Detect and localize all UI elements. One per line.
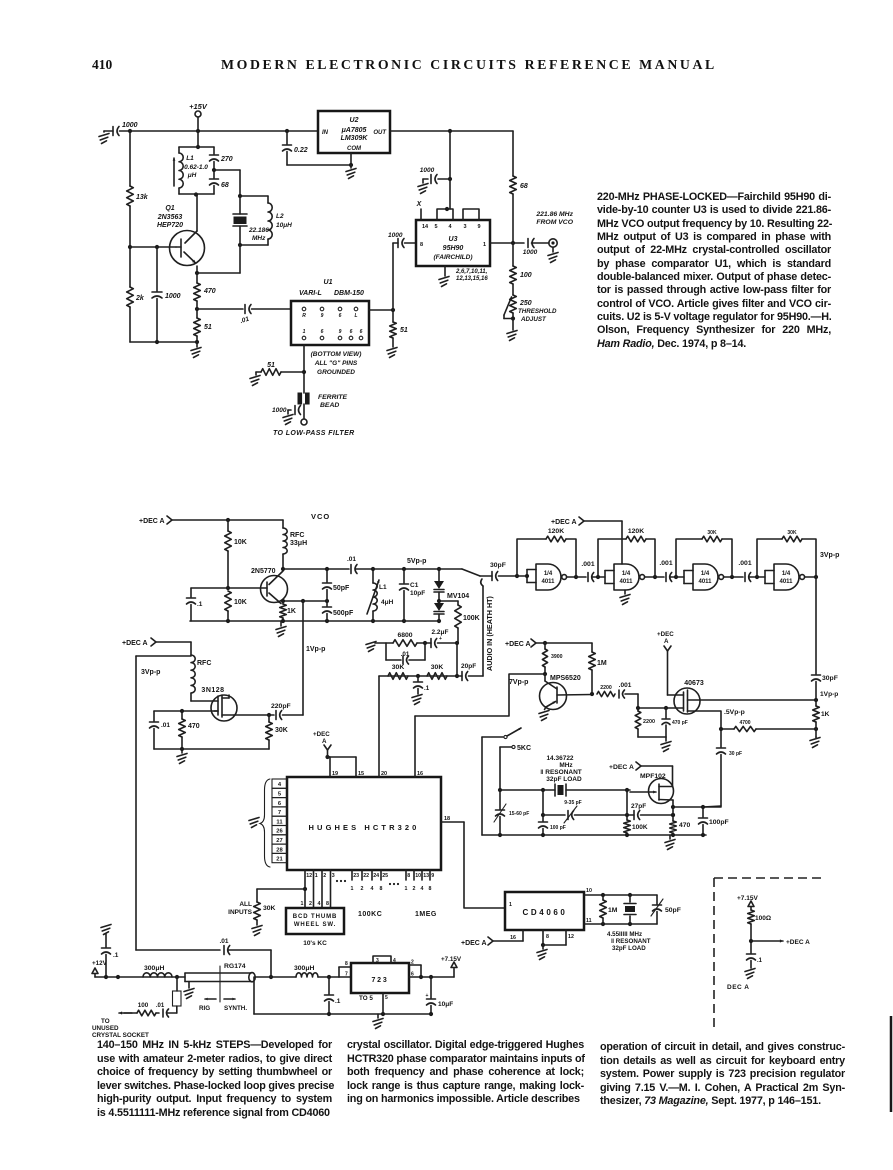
connector +DEC A (MPF102) [609, 762, 673, 787]
svg-text:470 pF: 470 pF [672, 720, 688, 726]
svg-text:1Vp-p: 1Vp-p [306, 646, 325, 653]
svg-text:4700: 4700 [739, 720, 750, 726]
svg-text:1K: 1K [287, 608, 296, 615]
crystal socket stub [167, 977, 181, 1013]
svg-text:8: 8 [546, 934, 549, 940]
mixer U1 VARI-L DBM-150 [291, 279, 369, 345]
capacitor 30pF (gate input) [439, 562, 517, 581]
wire U3 pin1 node [490, 241, 524, 245]
wire base [130, 245, 176, 249]
wire 723 out [419, 975, 454, 979]
capacitor 0.22 [283, 131, 308, 165]
svg-text:12: 12 [568, 934, 574, 940]
svg-text:221.86 MHz: 221.86 MHz [535, 211, 573, 218]
U3 top jumper 2 [463, 209, 479, 220]
divider rig/synth [199, 966, 247, 1012]
svg-text:100K: 100K [632, 824, 648, 831]
svg-text:4: 4 [421, 886, 424, 892]
pins 8/7 tie [339, 961, 351, 978]
svg-text:‖ RESONANT: ‖ RESONANT [611, 938, 651, 945]
wire 1Vp-p line [303, 601, 325, 715]
resistor 30K (audio 1) [388, 664, 408, 679]
capacitor .1 (det) [747, 954, 763, 968]
svg-text:4: 4 [371, 886, 374, 892]
svg-text:30K: 30K [707, 530, 717, 536]
svg-text:10pF: 10pF [410, 590, 425, 597]
svg-text:1000: 1000 [523, 249, 538, 256]
inductor RFC 33uH [283, 520, 307, 569]
wire gate2 out [645, 575, 665, 579]
wire MPS collector [557, 692, 594, 696]
trimmer 50pF (CD4060) [651, 895, 681, 924]
ground (pin I 51) [250, 372, 260, 386]
resistor 100 [510, 243, 532, 284]
svg-text:24: 24 [373, 873, 379, 879]
svg-text:1M: 1M [608, 907, 618, 914]
svg-text:9: 9 [477, 224, 480, 230]
inductor 300uH (1) [143, 965, 172, 977]
svg-text:10μF: 10μF [438, 1001, 453, 1008]
svg-text:10: 10 [415, 873, 421, 879]
ground (30K) [252, 920, 262, 936]
svg-text:+DEC A: +DEC A [122, 640, 148, 647]
svg-text:.01: .01 [401, 651, 410, 658]
svg-text:220pF: 220pF [271, 703, 291, 710]
brace (input pins) [260, 779, 270, 867]
svg-text:100KC: 100KC [358, 911, 382, 918]
dashed boundary [714, 878, 823, 1030]
svg-text:30pF: 30pF [822, 675, 838, 682]
coax RG174 [185, 963, 255, 982]
wire coax out [255, 975, 296, 979]
svg-text:+DEC A: +DEC A [609, 764, 634, 771]
feedback 30K (gate3) [676, 530, 732, 577]
svg-text:470: 470 [203, 288, 216, 295]
svg-text:6: 6 [411, 972, 414, 978]
caption column 2 [347, 1039, 584, 1107]
HCTR320 pins 8,10,13,9 (1MEG) [405, 870, 435, 892]
svg-text:8: 8 [345, 961, 348, 967]
ground (U1 right) [387, 338, 397, 358]
wire gate1 out [567, 575, 587, 579]
feedback 30K (gate4) [757, 530, 816, 577]
ground (MPS6520) [539, 711, 549, 721]
svg-text:23: 23 [353, 873, 359, 879]
resistor 13k [127, 131, 149, 206]
ground (osc) [665, 835, 675, 850]
svg-text:2: 2 [413, 886, 416, 892]
transistor Q1 2N3563 HEP720 [157, 205, 205, 266]
audio in line [481, 579, 494, 676]
wire left rail [128, 206, 132, 287]
svg-text:120K: 120K [628, 528, 644, 535]
svg-text:WHEEL SW.: WHEEL SW. [294, 922, 336, 928]
svg-text:5: 5 [278, 792, 282, 798]
inductor L1 0.62-1.0uH [173, 131, 214, 194]
capacitor .001 (3) [738, 560, 765, 582]
capacitor 68 [210, 170, 229, 194]
connector +DEC A (gates) [551, 517, 622, 564]
svg-text:RIG: RIG [199, 1005, 210, 1012]
svg-text:1/4: 1/4 [782, 571, 791, 577]
svg-text:U2: U2 [350, 117, 359, 124]
caption column 3 [600, 1041, 845, 1109]
regulator U9 723 [351, 963, 409, 993]
capacitor .1 (723 in) [325, 977, 341, 1014]
svg-text:+DEC: +DEC [313, 731, 330, 738]
capacitor 2.2uF [423, 629, 457, 648]
capacitor 470pF [662, 708, 688, 737]
svg-text:+7.15V: +7.15V [737, 895, 758, 902]
svg-text:+DEC A: +DEC A [786, 939, 810, 946]
svg-text:MPF102: MPF102 [640, 773, 666, 780]
IC U7 HUGHES HCTR320 [287, 777, 441, 870]
svg-text:6: 6 [278, 801, 282, 807]
svg-text:RG174: RG174 [224, 963, 246, 970]
capacitor .1 (audio) [414, 676, 430, 694]
wire audio node [455, 641, 459, 676]
svg-text:10K: 10K [234, 539, 247, 546]
svg-text:RFC: RFC [290, 532, 304, 539]
svg-text:AUDIO IN (HEATH HT): AUDIO IN (HEATH HT) [485, 595, 494, 671]
ground (Q1 emitter) [191, 342, 201, 358]
svg-text:+: + [439, 636, 442, 642]
svg-text:1: 1 [315, 873, 318, 879]
svg-text:VARI-L: VARI-L [299, 290, 322, 297]
caption column 1 [97, 1039, 332, 1120]
svg-text:A: A [322, 738, 327, 745]
resistor 2k [127, 287, 145, 342]
svg-text:27pF: 27pF [631, 803, 646, 810]
wire 40673 source [688, 709, 745, 729]
wire varactor tap [439, 600, 458, 602]
svg-text:4: 4 [278, 782, 282, 788]
svg-text:4: 4 [448, 224, 452, 230]
svg-text:1000: 1000 [165, 293, 181, 300]
capacitor 30 pF (osc coupling) [703, 729, 742, 807]
wire bottom rail [130, 340, 199, 344]
ground (det) [745, 969, 755, 979]
723 top jumper pins 3/4 [373, 956, 396, 964]
capacitor 1000 (output) [523, 239, 549, 257]
svg-text:2200: 2200 [643, 719, 655, 725]
resistor 100K (osc) [624, 790, 648, 835]
svg-text:.01: .01 [219, 938, 228, 945]
svg-text:FROM VCO: FROM VCO [536, 219, 573, 226]
svg-text:TO: TO [101, 1018, 110, 1025]
svg-text:270: 270 [220, 156, 233, 163]
svg-text:30K: 30K [431, 664, 444, 671]
svg-text:6: 6 [321, 329, 324, 335]
svg-text:5Vp-p: 5Vp-p [407, 558, 426, 565]
svg-text:30 pF: 30 pF [729, 751, 742, 757]
svg-text:CRYSTAL SOCKET: CRYSTAL SOCKET [92, 1032, 149, 1039]
wire U2 out to U3 [445, 129, 452, 211]
svg-text:DEC A: DEC A [727, 984, 749, 991]
svg-text:20: 20 [381, 771, 387, 777]
svg-text:51: 51 [400, 327, 408, 334]
svg-text:1000: 1000 [272, 407, 287, 414]
wire cap junction to crystal [212, 168, 242, 198]
resistor 3900 [542, 643, 562, 674]
FET Q6 MPF102 [630, 773, 674, 804]
svg-text:+DEC A: +DEC A [551, 519, 577, 526]
svg-text:ALL "G" PINS: ALL "G" PINS [314, 360, 358, 367]
connector +DEC A (3N128) [122, 638, 191, 647]
wire COM ground [287, 153, 353, 167]
capacitor 220pF [271, 703, 303, 720]
wire 3Vp-p line [136, 656, 191, 950]
gate U4b 1/4 4011 [605, 564, 645, 590]
wire emitter to crystal [195, 245, 240, 275]
resistor 470 (osc) [670, 807, 691, 835]
svg-text:7: 7 [278, 810, 281, 816]
svg-text:10μH: 10μH [276, 222, 292, 229]
svg-text:723: 723 [371, 977, 388, 984]
svg-text:50pF: 50pF [333, 585, 350, 592]
capacitor .01 (U1 input) [197, 305, 291, 326]
svg-text:120K: 120K [548, 528, 564, 535]
U3 ground pins note [439, 266, 488, 287]
ground (1K output) [810, 737, 820, 748]
resistor 1K (VCO) [280, 601, 296, 621]
resistor 470 [194, 273, 216, 301]
svg-text:0.62-1.0: 0.62-1.0 [184, 164, 208, 171]
svg-text:L: L [354, 313, 357, 319]
svg-text:+12V: +12V [92, 960, 108, 967]
svg-text:28: 28 [276, 847, 283, 853]
label VCO [311, 512, 330, 521]
connector +DEC A (pins 19/15) [313, 731, 331, 759]
wire osc ground rail [482, 833, 706, 837]
svg-text:COM: COM [347, 146, 362, 152]
svg-text:CD4060: CD4060 [523, 908, 568, 917]
svg-text:16: 16 [417, 771, 423, 777]
svg-text:30K: 30K [392, 664, 405, 671]
wire VCO ground rail [190, 619, 441, 623]
ground (12V filter) [101, 925, 111, 948]
svg-text:μA7805: μA7805 [341, 127, 367, 134]
svg-text:1: 1 [301, 901, 304, 907]
svg-text:26: 26 [276, 829, 283, 835]
svg-text:DBM-150: DBM-150 [334, 290, 364, 297]
capacitor .01 (bypass line) [136, 938, 271, 977]
pin X stub [416, 201, 423, 220]
svg-text:TO LOW-PASS FILTER: TO LOW-PASS FILTER [273, 430, 355, 437]
svg-text:Q1: Q1 [165, 205, 174, 212]
ground (top left) [99, 131, 109, 144]
wire pins 8/12 [541, 930, 574, 947]
svg-text:.1: .1 [757, 958, 763, 964]
svg-text:21: 21 [276, 857, 283, 863]
svg-text:BCD THUMB: BCD THUMB [293, 914, 337, 920]
connector +DEC A (VCO) [139, 516, 283, 525]
svg-text:30K: 30K [275, 727, 288, 734]
wire 10K to base [226, 551, 230, 590]
ground (6800 net) [366, 642, 386, 652]
switch 5KC [482, 728, 531, 752]
svg-text:+DEC A: +DEC A [461, 940, 487, 947]
resistor 2200 (shunt) [635, 708, 655, 737]
capacitor 30pF (output) [812, 577, 838, 700]
wire 100K top [626, 790, 628, 815]
wire base (VCO) [191, 587, 267, 589]
svg-text:6800: 6800 [397, 632, 412, 639]
inductor 300uH (2) [294, 965, 318, 977]
svg-text:.01: .01 [156, 1003, 165, 1009]
BCD thumbwheel switch [286, 908, 344, 947]
svg-text:9-35 pF: 9-35 pF [564, 800, 582, 806]
label DEC A [727, 984, 749, 991]
capacitor .001 (2) [659, 560, 684, 582]
svg-text:4μH: 4μH [381, 599, 394, 606]
svg-text:4: 4 [393, 958, 396, 964]
svg-text:5: 5 [385, 995, 388, 1001]
svg-text:2: 2 [309, 901, 312, 907]
capacitor .01 (6800 loop) [386, 643, 425, 664]
svg-text:3: 3 [463, 224, 466, 230]
svg-text:30K: 30K [263, 905, 276, 912]
svg-text:INPUTS: INPUTS [228, 909, 253, 916]
svg-text:5KC: 5KC [517, 745, 531, 752]
svg-text:ADJUST: ADJUST [520, 316, 547, 323]
svg-text:TO 5: TO 5 [359, 995, 373, 1002]
svg-text:.5Vp-p: .5Vp-p [724, 709, 745, 716]
capacitor 1000 (bead) [272, 404, 304, 419]
svg-text:L1: L1 [379, 584, 387, 591]
ferrite bead [298, 393, 348, 410]
wire collector [194, 192, 198, 231]
svg-text:4011: 4011 [779, 579, 793, 585]
caption: 220-MHz phase-locked [597, 191, 831, 351]
inductor L2 10uH [238, 196, 292, 247]
svg-text:40673: 40673 [684, 680, 704, 687]
label 1Vp-p (output) [820, 691, 838, 698]
resistor 30K (3N128) [266, 715, 288, 749]
wire top rail [128, 129, 318, 133]
svg-text:1: 1 [483, 242, 486, 248]
connector +DEC A (CD4060) [461, 930, 523, 947]
svg-text:ALL: ALL [239, 901, 252, 908]
svg-text:50pF: 50pF [665, 907, 681, 914]
svg-text:2.2μF: 2.2μF [432, 629, 449, 636]
svg-text:6: 6 [350, 329, 353, 335]
ground (input pins) [249, 818, 259, 828]
arrow +DEC A (det) [751, 939, 810, 946]
svg-text:6: 6 [360, 329, 363, 335]
svg-text:MHz: MHz [252, 235, 266, 242]
svg-text:1000: 1000 [122, 122, 138, 129]
svg-text:2,6,7,10,11,: 2,6,7,10,11, [455, 269, 488, 275]
svg-text:(BOTTOM VIEW): (BOTTOM VIEW) [311, 351, 362, 358]
svg-text:300μH: 300μH [294, 965, 314, 972]
wire pin 10 [584, 888, 657, 897]
capacitor .1 (VCO base) [187, 588, 203, 621]
wire pin 20 [379, 676, 387, 777]
svg-text:3Vp-p: 3Vp-p [141, 669, 160, 676]
wire 7Vp-p [415, 672, 547, 716]
svg-text:2k: 2k [135, 295, 145, 302]
svg-text:+DEC: +DEC [657, 631, 674, 638]
svg-text:0.22: 0.22 [294, 147, 308, 154]
svg-text:11: 11 [276, 819, 283, 825]
svg-text:2: 2 [323, 873, 326, 879]
svg-text:3: 3 [376, 958, 379, 964]
svg-text:BEAD: BEAD [320, 402, 339, 409]
wire 40673 drain out [688, 698, 819, 702]
capacitor 50pF [323, 569, 351, 601]
svg-text:3Vp-p: 3Vp-p [820, 552, 839, 559]
capacitor 1000 (emitter bypass) [152, 247, 181, 342]
svg-text:7: 7 [345, 972, 348, 978]
svg-text:.1: .1 [335, 998, 341, 1005]
svg-text:1000: 1000 [388, 232, 403, 239]
svg-text:33μH: 33μH [290, 540, 307, 547]
svg-text:9: 9 [321, 313, 324, 319]
resistor 51 (U1 right) [390, 310, 408, 338]
resistor 30K (audio 2) [427, 664, 447, 679]
arrow to crystal socket [92, 1011, 149, 1039]
svg-text:3N128: 3N128 [201, 687, 224, 694]
resistor 68 (output) [510, 131, 528, 243]
note bottom view [311, 351, 362, 376]
resistor 30K all inputs [228, 889, 305, 920]
svg-text:C1: C1 [410, 582, 419, 589]
feedback 120K (gate1) [517, 528, 576, 577]
wire audio row [379, 674, 459, 678]
inductor L1 4uH (VCO) [367, 567, 394, 621]
IC U8 CD4060 [505, 892, 584, 930]
svg-text:1M: 1M [597, 660, 607, 667]
svg-text:14: 14 [422, 224, 429, 230]
svg-text:MHz: MHz [559, 762, 573, 769]
page number [92, 57, 112, 73]
capacitor .001 (40673) [619, 682, 638, 698]
svg-text:27: 27 [276, 838, 282, 844]
svg-text:68: 68 [221, 182, 229, 189]
svg-text:MPS6520: MPS6520 [550, 675, 581, 682]
ground (2200/470pF) [638, 737, 671, 752]
capacitor 27pF [625, 803, 675, 820]
wire gate4 out [805, 575, 819, 579]
wire collector row [283, 567, 349, 571]
svg-text:.1: .1 [113, 952, 119, 959]
svg-text:9: 9 [431, 873, 434, 879]
resistor 51 (pin I) [256, 362, 304, 375]
svg-text:5: 5 [434, 224, 437, 230]
wire gate3 out [724, 575, 744, 579]
svg-text:32pF LOAD: 32pF LOAD [546, 776, 582, 783]
svg-text:22.186: 22.186 [248, 227, 269, 234]
svg-text:.01: .01 [347, 556, 356, 563]
crystal 4.5511111 MHz [607, 895, 651, 952]
capacitor 10uF [426, 977, 454, 1014]
capacitor 500pF [323, 601, 354, 621]
svg-text:RFC: RFC [197, 660, 211, 667]
label 5Vp-p [407, 558, 426, 565]
wire 12V rail [95, 975, 185, 979]
resistor 6800 [386, 632, 425, 646]
terminal to low-pass filter [273, 419, 355, 437]
svg-text:4011: 4011 [619, 579, 633, 585]
resistor 470 (3N128) [179, 711, 200, 749]
FET Q3 3N128 [191, 687, 237, 721]
svg-text:HEP720: HEP720 [157, 222, 183, 229]
resistor 1K (output) [813, 700, 830, 737]
svg-text:4: 4 [318, 901, 321, 907]
svg-text:6: 6 [339, 313, 342, 319]
svg-text:+7.15V: +7.15V [441, 956, 462, 963]
